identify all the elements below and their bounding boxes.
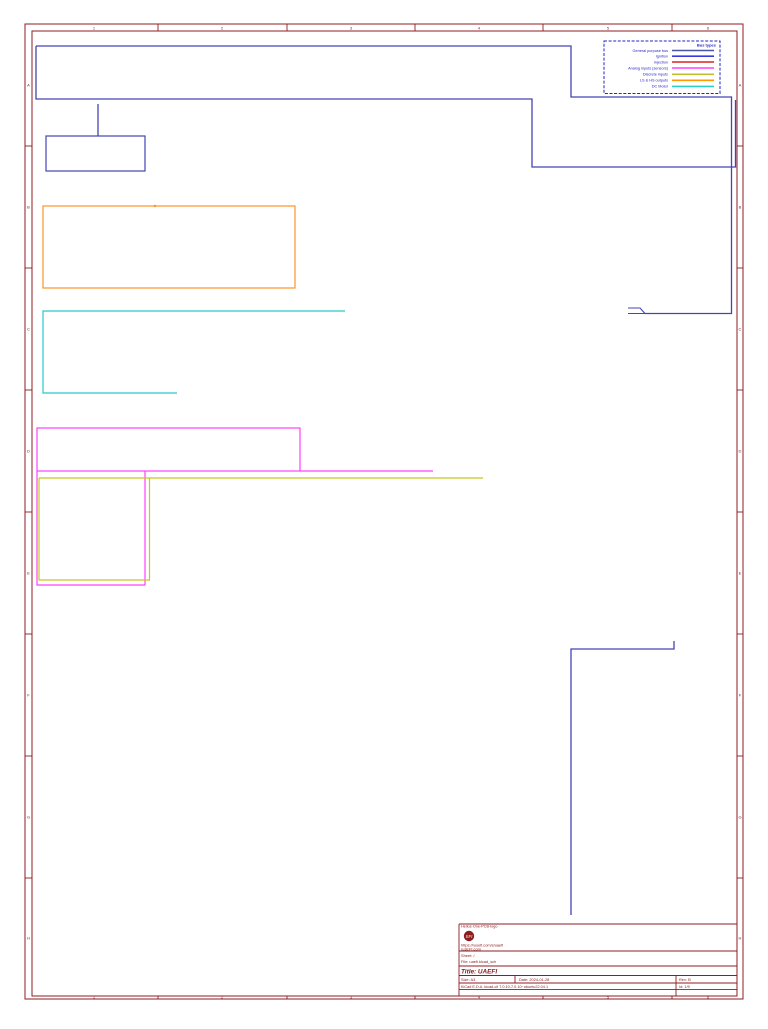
svg-text:Title: UAEFI: Title: UAEFI <box>461 969 497 976</box>
olive discrete bus line <box>39 477 483 479</box>
svg-text:G: G <box>738 815 741 820</box>
orange LS/HS bus box <box>43 206 295 288</box>
svg-text:Analog inputs (sensors): Analog inputs (sensors) <box>628 66 669 70</box>
svg-text:B: B <box>739 205 742 210</box>
olive discrete bus box J2 <box>39 478 150 580</box>
svg-text:Helios-One-PCB-logo: Helios-One-PCB-logo <box>461 925 498 929</box>
magenta analog bus box J10 <box>37 428 300 471</box>
svg-text:KiCad E.D.A. kicad-cli 7.0.10: KiCad E.D.A. kicad-cli 7.0.10-7.0.10~ubu… <box>461 985 548 989</box>
svg-text:Bus types: Bus types <box>697 43 717 48</box>
svg-text:E: E <box>27 571 30 576</box>
svg-text:H: H <box>739 936 742 941</box>
svg-text:C: C <box>739 327 742 332</box>
svg-text:Sheet: /: Sheet: / <box>461 953 475 958</box>
svg-text:A: A <box>27 83 30 88</box>
svg-text:File: uaefi.kicad_sch: File: uaefi.kicad_sch <box>461 959 496 964</box>
magenta analog bus line <box>300 470 433 472</box>
svg-text:G: G <box>27 815 30 820</box>
frame row letters <box>25 145 32 147</box>
bus general purpose top loop <box>36 46 732 314</box>
svg-text:LS & HS outputs: LS & HS outputs <box>640 79 668 83</box>
svg-text:EFI: EFI <box>466 934 473 939</box>
svg-text:Injection: Injection <box>654 60 668 64</box>
svg-text:General purpose bus: General purpose bus <box>633 49 669 53</box>
svg-text:Size: A3: Size: A3 <box>461 977 475 982</box>
svg-text:Id: 1/9: Id: 1/9 <box>679 984 690 989</box>
svg-text:Discrete inputs: Discrete inputs <box>643 73 668 77</box>
svg-text:Ignition: Ignition <box>656 55 668 59</box>
svg-text:DC Motor: DC Motor <box>652 85 669 89</box>
bus box USB section <box>571 641 674 915</box>
cyan DC motor bus <box>43 311 345 393</box>
bus box around J3 <box>46 136 145 171</box>
svg-text:D: D <box>739 449 742 454</box>
svg-text:Date: 2024-01-28: Date: 2024-01-28 <box>519 977 549 982</box>
bus stub to J3 <box>97 104 99 136</box>
magenta analog bus box J2 <box>37 471 145 585</box>
bus types legend <box>604 41 720 94</box>
svg-text:rusEFI.com: rusEFI.com <box>461 947 481 952</box>
svg-text:Rev: B: Rev: B <box>679 977 691 982</box>
svg-text:C: C <box>27 327 30 332</box>
svg-text:H: H <box>27 936 30 941</box>
svg-text:D: D <box>27 449 30 454</box>
title block <box>459 924 737 996</box>
svg-text:A: A <box>739 83 742 88</box>
svg-text:E: E <box>739 571 742 576</box>
svg-text:B: B <box>27 205 30 210</box>
